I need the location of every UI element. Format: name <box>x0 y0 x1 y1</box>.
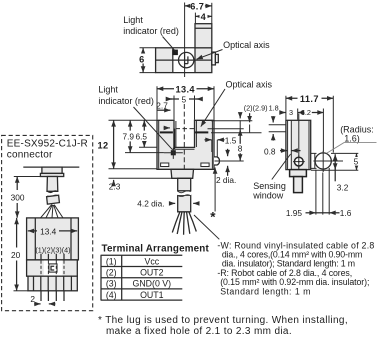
dashed panel box <box>2 135 93 310</box>
connector inner column lines <box>35 218 71 260</box>
svg-text:13.4: 13.4 <box>40 226 57 236</box>
table grid <box>101 255 183 300</box>
cable upper (panel) <box>47 177 58 192</box>
dim (2.9) arrow <box>249 113 251 122</box>
svg-text:20: 20 <box>11 250 21 260</box>
dim line between <box>316 212 329 214</box>
dim 1.95 arrow <box>306 212 316 214</box>
tower top band line <box>195 27 212 29</box>
svg-text:GND(0 V): GND(0 V) <box>132 279 171 289</box>
leader radius <box>327 143 377 154</box>
dim 13.4 (panel) text bg <box>37 226 59 235</box>
dim 0.8 arrows <box>280 150 287 152</box>
mounting lug (front view) <box>214 157 219 165</box>
dim 2.3 arrow <box>113 180 115 186</box>
cable lower (front view) <box>178 195 191 212</box>
svg-text:(1)(2)(3)(4): (1)(2)(3)(4) <box>35 245 70 254</box>
cable break (panel) <box>47 191 58 197</box>
body internal vertical line left <box>172 48 174 73</box>
dim 4.2 dia arrows <box>169 202 175 204</box>
pin leads below body <box>41 291 64 301</box>
svg-text:2.7: 2.7 <box>156 100 168 110</box>
leader to LED (top view) <box>163 37 177 53</box>
sensing element circle <box>294 157 303 166</box>
middle band white center <box>44 261 63 276</box>
svg-text:make a fixed hole of 2.1 to 2.: make a fixed hole of 2.1 to 2.3 mm dia. <box>106 326 292 337</box>
optical axis vertical centerline <box>184 3 186 78</box>
dim 1.5 extensions <box>212 140 218 157</box>
dim 20 bottom extension <box>14 290 29 292</box>
light indicator stem (thick slot wall) <box>173 129 175 150</box>
dim 6 extension bottom <box>140 72 156 74</box>
plug at sensor <box>42 167 62 173</box>
lug leader line down to asterisk <box>214 168 216 212</box>
svg-text:4: 4 <box>201 12 207 22</box>
svg-text:Light: Light <box>123 15 143 25</box>
leader to lens (top view) <box>197 50 223 60</box>
svg-text:6: 6 <box>139 54 145 64</box>
dim 6.2 line <box>312 112 324 114</box>
dim 13.4 (panel) line <box>28 230 77 232</box>
connector nub cap <box>215 54 218 62</box>
plug flange <box>40 173 63 176</box>
cable shoulder (front view) <box>171 169 194 178</box>
cable collar (panel) <box>47 195 60 204</box>
sensor underside line <box>23 166 79 168</box>
slot centerline dashed <box>183 104 185 213</box>
svg-text:*: * <box>210 210 216 225</box>
dim 3/6.2 shared arrow <box>298 112 303 114</box>
wire fan (panel) <box>41 205 64 218</box>
sensor tower (top view) <box>195 24 212 48</box>
dim 2.7 line <box>157 109 171 111</box>
light indicator LED (top view) <box>172 50 178 56</box>
dim 6 extension top <box>140 47 156 49</box>
sensing window strip white <box>288 121 291 169</box>
latch square <box>49 264 57 272</box>
U-shaped sensor body (front view) <box>157 120 214 169</box>
dim 2 arrows <box>34 303 40 305</box>
dim 11.7 line <box>286 97 333 99</box>
svg-text:Optical axis: Optical axis <box>223 40 270 50</box>
sensor body (right side view) <box>286 120 311 169</box>
svg-text:6.2: 6.2 <box>301 108 311 117</box>
dim 300 extension <box>14 176 41 178</box>
svg-text:(2)(2.9): (2)(2.9) <box>244 104 268 113</box>
svg-text:connector: connector <box>7 149 53 160</box>
svg-text:7.9: 7.9 <box>123 131 135 141</box>
bottom slot window left <box>161 163 169 167</box>
lug crosshair <box>313 151 343 172</box>
dim (2) arrow <box>239 113 241 118</box>
dim 11.7 extensions <box>286 96 333 153</box>
svg-text:Vcc: Vcc <box>144 256 159 266</box>
emitter element bar left <box>160 131 173 133</box>
svg-text:1.95: 1.95 <box>286 208 303 218</box>
leader to detector element <box>201 89 225 127</box>
lens inner marks <box>185 56 188 63</box>
cable break waves <box>178 191 191 197</box>
bottom slot window right <box>201 163 209 167</box>
svg-text:4.2 dia.: 4.2 dia. <box>137 199 164 209</box>
body internal vertical line right <box>194 48 196 73</box>
dim 8 line upper <box>239 129 241 143</box>
svg-text:13.4: 13.4 <box>175 84 195 94</box>
dim 2 dia arrows <box>227 149 229 156</box>
svg-text:2: 2 <box>30 294 35 304</box>
svg-text:3: 3 <box>289 108 293 117</box>
indicator crosshair ticks <box>164 148 183 159</box>
inner wall lines <box>159 121 213 169</box>
dim 1.8 arrows <box>272 116 274 122</box>
mounting lug circle (right view) <box>315 153 331 169</box>
svg-text:5: 5 <box>354 157 359 167</box>
svg-text:window: window <box>252 190 284 200</box>
svg-text:EE-SX952-C1J-R: EE-SX952-C1J-R <box>7 138 88 149</box>
lens crosshair <box>179 53 193 67</box>
dim 12 line <box>113 120 115 168</box>
svg-text:(4): (4) <box>106 290 117 300</box>
dim 6.2 extensions <box>298 109 324 152</box>
svg-text:6.5: 6.5 <box>136 131 148 141</box>
dim 6.7/4 right extension <box>211 3 213 24</box>
dim 7.9 line <box>129 120 131 130</box>
dim 13.4 extensions <box>157 86 214 119</box>
leader from label to indicator <box>134 107 173 150</box>
connector main body <box>27 218 79 260</box>
left dim extensions <box>109 120 172 178</box>
connector nub right <box>212 52 216 65</box>
connector middle band <box>27 260 78 276</box>
lower band dividers <box>34 276 72 291</box>
dim 5 extensions <box>174 96 195 120</box>
emitter arrow left tower <box>164 127 171 129</box>
svg-text:300: 300 <box>11 192 25 202</box>
leader from wires to cable note <box>194 215 219 239</box>
svg-text:12: 12 <box>98 141 109 151</box>
dim 20 line <box>16 218 18 248</box>
dim 5 reference lines <box>311 153 358 170</box>
tower top line extended right <box>211 120 252 122</box>
body inner lines <box>288 120 309 169</box>
svg-text:1.6: 1.6 <box>340 208 352 218</box>
svg-text:1.8: 1.8 <box>269 104 279 113</box>
connector stem (right view) <box>294 177 303 193</box>
svg-text:6.7: 6.7 <box>190 2 204 12</box>
sensor body (top/side view) <box>156 48 212 73</box>
dim 1.5 arrows <box>205 139 212 141</box>
svg-text:3.2: 3.2 <box>337 182 349 192</box>
cable break white gap <box>177 192 191 195</box>
body middle white section <box>173 48 195 72</box>
bottom extension lines <box>316 168 329 215</box>
optical axis line extended right <box>208 128 244 130</box>
dim 13.4 line <box>157 88 214 90</box>
svg-text:indicator (red): indicator (red) <box>123 26 179 36</box>
dim 4 extension line <box>194 13 196 24</box>
svg-text:OUT2: OUT2 <box>140 268 164 278</box>
leader sensing window <box>272 154 291 180</box>
window band lines right view refs <box>269 125 309 132</box>
svg-text:5: 5 <box>181 94 186 104</box>
dim 1.6 arrow <box>329 212 339 214</box>
dim 3 arrow <box>280 112 286 114</box>
connector lower band <box>28 276 77 291</box>
svg-text:(3): (3) <box>106 279 117 289</box>
mounting lug bracket <box>311 153 317 168</box>
lens circle (top view) <box>179 52 194 67</box>
dim 6.5 line <box>143 120 145 130</box>
latch inner mark <box>51 266 54 270</box>
dim 8 line lower <box>239 153 241 160</box>
cable upper (front view) <box>178 178 191 191</box>
dim 3.2 line <box>334 154 336 181</box>
svg-text:(2): (2) <box>106 268 117 278</box>
svg-text:OUT1: OUT1 <box>140 290 164 300</box>
svg-text:8: 8 <box>238 143 243 153</box>
svg-text:1.6): 1.6) <box>344 133 360 143</box>
detector element bar right <box>195 131 208 133</box>
optical axis dashes in slot <box>176 128 195 130</box>
lug center line extended <box>215 160 244 162</box>
svg-text:* The lug is used to prevent t: * The lug is used to prevent turning. Wh… <box>98 315 348 326</box>
svg-text:Standard length: 1 m: Standard length: 1 m <box>220 286 311 296</box>
svg-text:(1): (1) <box>106 256 117 266</box>
svg-text:Light: Light <box>98 85 118 95</box>
svg-text:Terminal Arrangement: Terminal Arrangement <box>102 244 210 255</box>
body centerline <box>298 114 300 175</box>
svg-text:2.3: 2.3 <box>109 181 121 191</box>
element bottom line extended right <box>211 132 262 134</box>
pin dashed lines <box>41 254 64 260</box>
light indicator square (front view) <box>171 150 176 155</box>
svg-text:2 dia.: 2 dia. <box>216 175 236 185</box>
body horizontal center line <box>156 59 212 61</box>
dim 6 line <box>142 48 144 73</box>
dim 5 line right <box>356 153 358 170</box>
svg-text:11.7: 11.7 <box>300 94 319 104</box>
connector shoulder (right view) <box>290 170 307 177</box>
svg-text:Optical axis: Optical axis <box>226 80 273 90</box>
dim 5 line with outside arrows <box>168 98 201 100</box>
dim 4 line <box>195 15 211 17</box>
svg-text:indicator (red): indicator (red) <box>98 96 154 106</box>
svg-text:0.8: 0.8 <box>264 146 276 156</box>
dim 6.7 line <box>185 5 212 7</box>
dim 300 line <box>16 177 18 191</box>
svg-text:1.5: 1.5 <box>225 136 237 146</box>
element crosshair <box>293 155 305 168</box>
wire strands fan <box>172 212 196 235</box>
